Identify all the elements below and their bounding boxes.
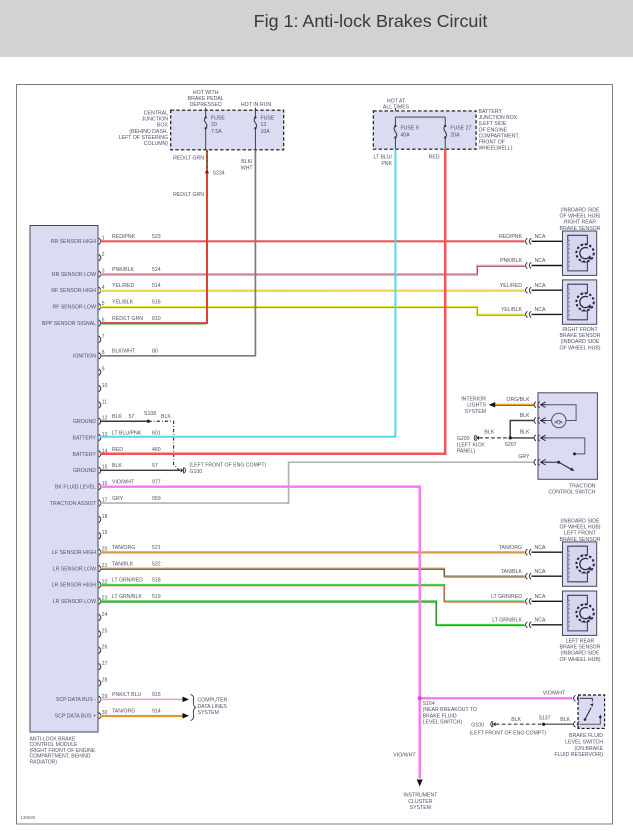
- module pin 6: [99, 320, 101, 327]
- module pin 30: [99, 712, 101, 719]
- svg-text:BPP SENSOR SIGNAL: BPP SENSOR SIGNAL: [42, 321, 96, 327]
- svg-text:BATTERY: BATTERY: [73, 435, 97, 441]
- svg-text:LT GRN/RED: LT GRN/RED: [112, 578, 143, 584]
- svg-text:CENTRAL: CENTRAL: [144, 111, 168, 117]
- svg-text:WHT: WHT: [241, 166, 254, 172]
- svg-text:139630: 139630: [21, 815, 36, 820]
- svg-text:RR SENSOR LOW: RR SENSOR LOW: [52, 272, 96, 278]
- module pin 16: [99, 483, 101, 490]
- svg-text:FUSE: FUSE: [211, 116, 225, 122]
- svg-text:S234: S234: [213, 171, 225, 177]
- svg-text:JUNCTION BOX: JUNCTION BOX: [479, 115, 518, 121]
- svg-text:(INBOARD SIDE: (INBOARD SIDE: [561, 207, 600, 213]
- svg-text:YEL/BLK: YEL/BLK: [112, 300, 134, 306]
- svg-text:20: 20: [211, 122, 217, 128]
- svg-text:LEVEL SWITCH): LEVEL SWITCH): [423, 720, 463, 726]
- switch lever from pin4: [546, 461, 559, 463]
- module pin 19: [99, 532, 101, 539]
- svg-text:NCA: NCA: [535, 283, 546, 289]
- svg-text:OF WHEEL HUB): OF WHEEL HUB): [559, 345, 600, 351]
- ground G200 (left kick panel): [476, 436, 479, 440]
- module pin 10: [99, 385, 101, 392]
- fuse 27: [444, 125, 446, 127]
- wire LT GRN/RED pin 22 to LR sensor: [100, 585, 525, 601]
- svg-text:BLK: BLK: [161, 414, 171, 420]
- svg-text:977: 977: [152, 480, 161, 486]
- svg-text:GRY: GRY: [518, 454, 530, 460]
- svg-text:BRAKE SENSOR: BRAKE SENSOR: [560, 537, 601, 543]
- svg-text:RED: RED: [112, 447, 123, 453]
- module pin 25: [99, 631, 101, 638]
- wire LT BLU/PNK fuse 9 to pin 13: [100, 149, 395, 437]
- svg-text:OF ENGINE: OF ENGINE: [479, 127, 508, 133]
- wire TAN/ORG pin 30: [100, 715, 183, 717]
- svg-text:27: 27: [102, 661, 108, 667]
- switch: brake fluid level switch box: [578, 695, 605, 728]
- lamp indicator inside switch: [552, 413, 566, 427]
- svg-text:RED: RED: [429, 155, 440, 161]
- module pin 23: [99, 598, 101, 605]
- svg-text:BRAKE SENSOR: BRAKE SENSOR: [560, 644, 601, 650]
- wire VIO/WHT pin 16 to S164 to instrument cluster: [100, 487, 420, 779]
- svg-text:RADIATOR): RADIATOR): [30, 759, 58, 765]
- svg-text:LR SENSOR LOW: LR SENSOR LOW: [53, 599, 96, 605]
- svg-text:SCP DATA BUS +: SCP DATA BUS +: [55, 714, 96, 720]
- svg-text:523: 523: [152, 234, 161, 240]
- svg-text:LIGHTS: LIGHTS: [467, 403, 486, 409]
- svg-text:NCA: NCA: [535, 307, 546, 313]
- svg-text:RIGHT REAR: RIGHT REAR: [564, 220, 596, 226]
- svg-text:YEL/RED: YEL/RED: [500, 283, 522, 289]
- module pin 2: [99, 254, 101, 261]
- module pin 9: [99, 369, 101, 376]
- wire BLK S207 to G200 (dashed): [479, 437, 510, 439]
- svg-text:11: 11: [102, 399, 107, 405]
- svg-text:BLK/: BLK/: [241, 159, 253, 165]
- svg-text:LEFT REAR: LEFT REAR: [566, 638, 595, 644]
- svg-text:INSTRUMENT: INSTRUMENT: [403, 793, 438, 799]
- svg-text:S137: S137: [538, 715, 550, 721]
- svg-text:LR SENSOR LOW: LR SENSOR LOW: [53, 566, 96, 572]
- svg-text:DATA LINES: DATA LINES: [198, 704, 228, 710]
- svg-text:LF SENSOR HIGH: LF SENSOR HIGH: [52, 550, 96, 556]
- module pin 15: [99, 467, 101, 474]
- central junction box C218: [171, 110, 284, 150]
- svg-text:BLK/WHT: BLK/WHT: [112, 349, 136, 355]
- svg-text:RF SENSOR LOW: RF SENSOR LOW: [52, 305, 96, 311]
- svg-text:FUSE 27: FUSE 27: [450, 126, 471, 132]
- svg-text:TRACTION ASSIST: TRACTION ASSIST: [50, 501, 97, 507]
- svg-text:FUSE 9: FUSE 9: [401, 126, 419, 132]
- svg-text:BLK: BLK: [112, 463, 122, 469]
- svg-text:522: 522: [152, 561, 161, 567]
- svg-text:810: 810: [152, 316, 161, 322]
- svg-text:WHEELWELL): WHEELWELL): [479, 146, 513, 152]
- svg-text:LR SENSOR HIGH: LR SENSOR HIGH: [52, 583, 97, 589]
- svg-text:(ON BRAKE: (ON BRAKE: [574, 746, 603, 752]
- module pin 17: [99, 500, 101, 507]
- svg-text:19: 19: [102, 530, 108, 536]
- svg-text:RED/LT GRN: RED/LT GRN: [173, 192, 204, 198]
- wire VIO/WHT S164 to brake fluid level switch: [420, 697, 573, 699]
- svg-text:S207: S207: [504, 442, 516, 448]
- svg-text:518: 518: [152, 578, 161, 584]
- module pin 8: [99, 353, 101, 360]
- svg-text:57: 57: [129, 414, 135, 420]
- svg-text:524: 524: [152, 267, 161, 273]
- svg-text:TAN/ORG: TAN/ORG: [112, 545, 135, 551]
- ground G100 at brake fluid switch: [493, 722, 496, 726]
- svg-text:TAN/BLK: TAN/BLK: [501, 569, 523, 575]
- svg-text:RED/LT GRN: RED/LT GRN: [112, 316, 143, 322]
- svg-text:TAN/BLK: TAN/BLK: [112, 561, 134, 567]
- sensor RF: right front brake sensor: [563, 280, 597, 324]
- svg-text:13: 13: [261, 122, 267, 128]
- module pin 14: [99, 451, 101, 458]
- svg-text:LT BLU/PNK: LT BLU/PNK: [112, 430, 142, 436]
- svg-text:2: 2: [102, 252, 105, 258]
- svg-text:BLK: BLK: [520, 413, 530, 419]
- fuse 20: [205, 110, 207, 118]
- svg-text:601: 601: [152, 430, 161, 436]
- svg-text:G100: G100: [471, 722, 484, 728]
- svg-text:519: 519: [152, 594, 161, 600]
- wire RED fuse 27 to pin 14: [100, 149, 445, 454]
- svg-text:S108: S108: [144, 411, 156, 417]
- wire BLK pin 12 to S108: [100, 420, 148, 422]
- svg-text:521: 521: [152, 545, 161, 551]
- wire RED/LT GRN fuse 20 to S234 (striped segment): [206, 150, 208, 173]
- svg-text:NCA: NCA: [535, 594, 546, 600]
- svg-text:RED/PNK: RED/PNK: [499, 234, 523, 240]
- svg-text:NCA: NCA: [535, 545, 546, 551]
- svg-text:(INBOARD SIDE: (INBOARD SIDE: [561, 518, 600, 524]
- wire PNK/BLK pin 3 to RR sensor: [100, 266, 525, 275]
- svg-text:BOX: BOX: [157, 123, 168, 129]
- svg-text:HOT IN RUN: HOT IN RUN: [241, 102, 271, 108]
- svg-text:YEL/BLK: YEL/BLK: [501, 307, 523, 313]
- module pin 5: [99, 303, 101, 310]
- svg-text:PNK/BLK: PNK/BLK: [112, 267, 134, 273]
- svg-text:26: 26: [102, 645, 108, 651]
- module pin 20: [99, 549, 101, 556]
- svg-text:IGNITION: IGNITION: [73, 354, 96, 360]
- svg-text:COLUMN): COLUMN): [144, 141, 168, 147]
- wire RED/PNK pin 1 to RR sensor: [100, 240, 525, 242]
- brake fluid switch top pin connector: [574, 695, 576, 701]
- wire ORG/BLK traction switch to interior lights: [494, 404, 534, 406]
- svg-text:914: 914: [152, 709, 161, 715]
- svg-text:9: 9: [102, 367, 105, 373]
- module pin 21: [99, 565, 101, 572]
- svg-text:959: 959: [152, 496, 161, 502]
- wire TAN/ORG pin 20 to LF sensor: [100, 551, 525, 553]
- svg-text:SCP DATA BUS -: SCP DATA BUS -: [56, 697, 96, 703]
- arrow to interior lights system: [489, 402, 496, 408]
- module pin 18: [99, 516, 101, 523]
- module pin 26: [99, 647, 101, 654]
- brake fluid switch lever: [585, 708, 591, 720]
- traction switch connector pin at y=420.5: [534, 417, 536, 423]
- wire BLK pin 15 to G100: [100, 469, 180, 471]
- svg-text:(INBOARD SIDE: (INBOARD SIDE: [561, 651, 600, 657]
- svg-text:CONTROL SWITCH: CONTROL SWITCH: [548, 490, 595, 496]
- splice S164 junction dot: [418, 696, 422, 700]
- wire TAN/BLK pin 21 to LF sensor: [100, 569, 525, 577]
- fuse 13: [254, 110, 256, 118]
- svg-text:PNK/LT BLU: PNK/LT BLU: [112, 692, 141, 698]
- module pin 13: [99, 434, 101, 441]
- wire BLK S108 to G100 (dash-dot): [148, 421, 179, 470]
- svg-text:INTERIOR: INTERIOR: [461, 396, 486, 402]
- svg-text:RED/PNK: RED/PNK: [112, 234, 136, 240]
- svg-text:VIO/WHT: VIO/WHT: [543, 690, 566, 696]
- ground G100 (left front of eng compt): [181, 468, 184, 472]
- fuse 9: [394, 125, 396, 127]
- svg-text:YEL/RED: YEL/RED: [112, 283, 134, 289]
- svg-text:516: 516: [152, 300, 161, 306]
- splice S108: [147, 420, 150, 423]
- wire BLK S137 to G100 (dashed): [496, 723, 544, 725]
- svg-text:VIO/WHT: VIO/WHT: [112, 480, 135, 486]
- svg-text:BLK: BLK: [484, 429, 494, 435]
- wire stub HOT WITH to fuse 20: [205, 108, 207, 116]
- svg-text:BLK: BLK: [520, 429, 530, 435]
- svg-text:ORG/BLK: ORG/BLK: [506, 397, 530, 403]
- svg-text:LEVEL SWITCH: LEVEL SWITCH: [565, 740, 603, 746]
- svg-text:TAN/ORG: TAN/ORG: [499, 545, 522, 551]
- svg-text:80: 80: [152, 349, 158, 355]
- brake fluid switch internal contact wire: [580, 698, 593, 701]
- svg-text:(LEFT SIDE: (LEFT SIDE: [479, 121, 507, 127]
- svg-text:RR SENSOR HIGH: RR SENSOR HIGH: [51, 239, 97, 245]
- svg-text:7.5A: 7.5A: [211, 129, 222, 135]
- wire LT GRN/BLK pin 23 to LR sensor: [100, 601, 525, 625]
- svg-text:OF WHEEL HUB): OF WHEEL HUB): [559, 524, 600, 530]
- arrow pin 29 to computer data lines: [183, 697, 190, 703]
- module pin 4: [99, 287, 101, 294]
- svg-text:SYSTEM: SYSTEM: [465, 409, 486, 415]
- arrow to instrument cluster: [417, 780, 423, 787]
- svg-text:CLUSTER: CLUSTER: [408, 799, 432, 805]
- svg-text:S164: S164: [423, 701, 435, 707]
- sensor RR: right rear brake sensor: [563, 231, 597, 275]
- svg-text:JUNCTION: JUNCTION: [142, 117, 168, 123]
- svg-text:(INBOARD SIDE: (INBOARD SIDE: [561, 339, 600, 345]
- svg-text:FRONT OF: FRONT OF: [479, 140, 505, 146]
- svg-text:PNK/BLK: PNK/BLK: [500, 258, 522, 264]
- svg-text:(NEAR BREAKOUT TO: (NEAR BREAKOUT TO: [423, 707, 477, 713]
- svg-text:OF WHEEL HUB): OF WHEEL HUB): [559, 213, 600, 219]
- svg-text:BRAKE SENSOR: BRAKE SENSOR: [560, 226, 601, 232]
- module pin 11: [99, 402, 101, 409]
- svg-text:40A: 40A: [401, 132, 411, 138]
- svg-text:GRY: GRY: [112, 496, 124, 502]
- wire PNK/LT BLU pin 29: [100, 698, 183, 700]
- svg-text:18: 18: [102, 514, 108, 520]
- svg-text:TAN/ORG: TAN/ORG: [112, 709, 135, 715]
- svg-text:LEFT FRONT: LEFT FRONT: [564, 531, 597, 537]
- sensor LF: left front brake sensor: [563, 542, 597, 586]
- svg-text:(LEFT KICK: (LEFT KICK: [457, 442, 485, 448]
- switch SW: traction control switch box: [538, 393, 597, 480]
- svg-text:915: 915: [152, 692, 161, 698]
- svg-text:28: 28: [102, 677, 108, 683]
- module pin 29: [99, 696, 101, 703]
- svg-text:514: 514: [152, 283, 161, 289]
- svg-text:BATTERY: BATTERY: [479, 109, 503, 115]
- svg-text:(LEFT FRONT OF ENG COMPT): (LEFT FRONT OF ENG COMPT): [470, 730, 547, 736]
- svg-text:BATTERY: BATTERY: [73, 452, 97, 458]
- svg-text:LEFT OF STEERING: LEFT OF STEERING: [119, 135, 168, 141]
- svg-text:G200: G200: [457, 436, 470, 442]
- svg-text:GROUND: GROUND: [73, 468, 96, 474]
- module pin 1: [99, 238, 101, 245]
- op-amp-style block: anti-lock brake control module: [30, 226, 98, 733]
- svg-text:LT GRN/RED: LT GRN/RED: [491, 594, 522, 600]
- svg-text:OF WHEEL HUB): OF WHEEL HUB): [559, 657, 600, 663]
- svg-text:COMPARTMENT,: COMPARTMENT,: [479, 133, 520, 139]
- internal wire pin3 to contact: [546, 438, 585, 454]
- wire YEL/BLK pin 5 to RF sensor: [100, 307, 525, 315]
- svg-text:BLK: BLK: [560, 717, 570, 723]
- svg-text:TRACTION: TRACTION: [569, 483, 596, 489]
- sensor LR: left rear brake sensor: [563, 591, 597, 635]
- svg-text:PANEL): PANEL): [457, 449, 476, 455]
- internal wire pin1 loop to lamp: [546, 405, 576, 421]
- internal wire lamp to pin2: [546, 420, 552, 422]
- battery junction box: [373, 111, 476, 149]
- svg-text:57: 57: [152, 463, 158, 469]
- svg-text:BLK: BLK: [511, 717, 521, 723]
- module pin 28: [99, 680, 101, 687]
- splice S164: [418, 697, 421, 700]
- wire YEL/RED pin 4 to RF sensor: [100, 289, 525, 291]
- svg-text:25: 25: [102, 628, 108, 634]
- svg-text:BLK: BLK: [112, 414, 122, 420]
- wire BLK traction switch pin2 to S207: [510, 421, 533, 438]
- traction switch connector pin at y=437.9: [534, 435, 536, 441]
- svg-text:(BEHIND DASH,: (BEHIND DASH,: [129, 129, 168, 135]
- svg-text:20A: 20A: [450, 132, 460, 138]
- svg-text:24: 24: [102, 612, 108, 618]
- splice S234: [205, 171, 208, 174]
- module pin 7: [99, 336, 101, 343]
- wire BLK S207 to traction switch pin3: [510, 437, 533, 439]
- wire stub HOT AT ALL TIMES to fuse 9: [394, 108, 396, 117]
- svg-text:PNK: PNK: [381, 161, 392, 167]
- svg-text:LT BLU/: LT BLU/: [373, 155, 392, 161]
- svg-text:NCA: NCA: [535, 258, 546, 264]
- svg-text:BRAKE FLUID: BRAKE FLUID: [569, 733, 603, 739]
- svg-text:(LEFT FRONT OF ENG COMPT): (LEFT FRONT OF ENG COMPT): [190, 463, 267, 469]
- svg-text:GROUND: GROUND: [73, 419, 96, 425]
- svg-text:FUSE: FUSE: [261, 116, 275, 122]
- svg-text:7: 7: [102, 334, 105, 340]
- svg-text:SYSTEM: SYSTEM: [198, 710, 219, 716]
- svg-text:10: 10: [102, 383, 108, 389]
- module pin 24: [99, 614, 101, 621]
- svg-text:G100: G100: [190, 469, 203, 475]
- brace computer data lines: [191, 695, 196, 721]
- internal bus wire fuse9 to fuse27: [395, 116, 445, 118]
- module pin 22: [99, 582, 101, 589]
- svg-text:LT GRN/BLK: LT GRN/BLK: [112, 594, 142, 600]
- svg-text:COMPUTER: COMPUTER: [198, 698, 228, 704]
- wire GRY pin 17 to traction control switch: [100, 462, 534, 503]
- svg-text:FLUID RESERVOIR): FLUID RESERVOIR): [554, 752, 603, 758]
- svg-text:460: 460: [152, 447, 161, 453]
- wire BLK/WHT fuse 13 to pin 8: [100, 150, 255, 356]
- header bar: [0, 0, 633, 57]
- traction switch connector pin at y=404.7: [534, 402, 536, 408]
- wire RED/LT GRN S234 to pin 6: [100, 173, 207, 324]
- module pin 27: [99, 663, 101, 670]
- svg-text:Fig 1: Anti-lock Brakes Circui: Fig 1: Anti-lock Brakes Circuit: [254, 11, 488, 31]
- splice S207: [509, 436, 512, 439]
- svg-text:BRAKE FLUID: BRAKE FLUID: [423, 713, 457, 719]
- svg-text:NCA: NCA: [535, 617, 546, 623]
- svg-text:10A: 10A: [261, 129, 271, 135]
- brake fluid switch bottom pin + float arrow: [574, 721, 576, 727]
- wire BLK brake fluid switch to S137: [544, 723, 573, 725]
- svg-text:NCA: NCA: [535, 569, 546, 575]
- module pin 3: [99, 271, 101, 278]
- svg-text:BRAKE SENSOR: BRAKE SENSOR: [560, 333, 601, 339]
- wire stub HOT IN RUN to fuse 13: [254, 108, 256, 116]
- splice S137: [542, 723, 545, 726]
- module pin 12: [99, 418, 101, 425]
- svg-text:RED/LT GRN: RED/LT GRN: [173, 156, 204, 162]
- svg-text:ALL TIMES: ALL TIMES: [383, 105, 410, 111]
- svg-text:BK FLUID LEVEL: BK FLUID LEVEL: [55, 485, 96, 491]
- svg-text:RF SENSOR HIGH: RF SENSOR HIGH: [51, 288, 96, 294]
- svg-text:LT GRN/BLK: LT GRN/BLK: [492, 617, 522, 623]
- arrow pin 30 to computer data lines: [183, 713, 190, 719]
- svg-text:VIO/WHT: VIO/WHT: [393, 753, 416, 759]
- traction switch connector pin at y=462.2: [534, 459, 536, 465]
- svg-text:DEPRESSED: DEPRESSED: [190, 102, 222, 108]
- svg-text:SYSTEM: SYSTEM: [410, 805, 431, 811]
- svg-text:NCA: NCA: [535, 234, 546, 240]
- svg-text:RIGHT FRONT: RIGHT FRONT: [562, 327, 598, 333]
